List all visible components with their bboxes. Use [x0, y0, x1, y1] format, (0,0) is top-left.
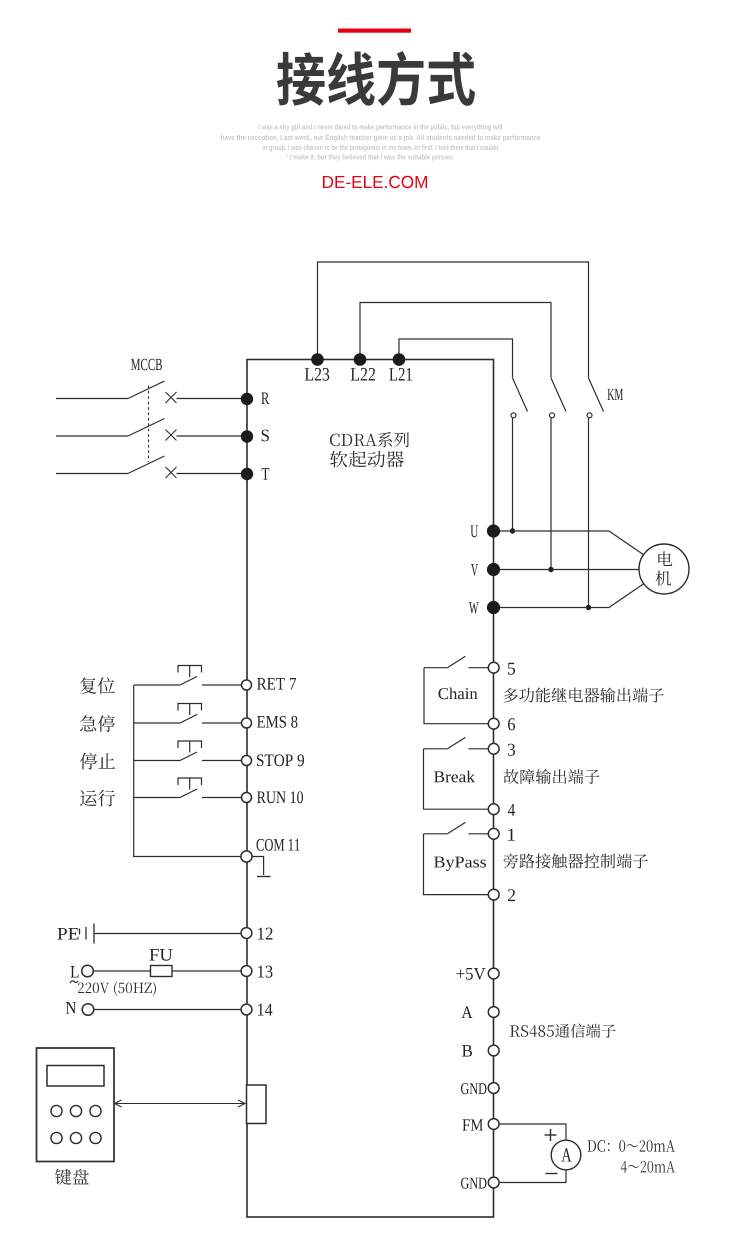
stop button 停止 contact blade — [180, 752, 197, 761]
Break relay contact left return wire — [424, 749, 489, 809]
terminal 1 circle — [488, 828, 499, 839]
label RET 7 — [257, 678, 296, 690]
fuse FU body — [151, 966, 173, 977]
terminal U dot — [487, 524, 500, 537]
N neutral circle — [82, 1004, 94, 1016]
reset button 复位 actuator — [178, 666, 202, 673]
keypad buttons row 2 — [51, 1132, 62, 1143]
plus sign — [545, 1134, 557, 1136]
motor label 电 — [658, 551, 672, 566]
junction dot on phase line — [586, 605, 591, 610]
CDRA series text line 2 — [330, 451, 404, 468]
ammeter label A — [562, 1148, 572, 1161]
CDRA series text line 1 — [330, 432, 409, 447]
label N — [66, 1002, 76, 1014]
control common rail — [134, 685, 241, 857]
keypad outer box — [37, 1048, 115, 1162]
stop button 停止 actuator — [178, 741, 202, 748]
wire U to motor — [500, 531, 644, 555]
wire V to motor — [500, 569, 639, 571]
stop button 停止 wire to terminal — [202, 760, 242, 762]
emergency stop button 急停 wire from rail — [134, 722, 180, 724]
terminal +5V circle — [488, 968, 499, 979]
KM contactor pole 2 lower wire — [550, 418, 552, 570]
label L — [70, 966, 78, 978]
ac tilde mark — [70, 981, 78, 983]
label 急停 — [80, 715, 115, 732]
terminal 2 circle — [488, 889, 499, 900]
terminal T dot — [241, 468, 253, 480]
connector block on left bus — [247, 1085, 267, 1124]
wire L22 to KM contact 2 — [360, 303, 551, 378]
reset button 复位 wire to terminal — [202, 684, 242, 686]
label 220V (50HZ) — [78, 981, 156, 995]
terminal A circle — [488, 1007, 499, 1018]
label +5V — [457, 968, 486, 980]
PE earth bars — [79, 929, 81, 935]
Break relay contact top wire — [424, 748, 448, 750]
label FM — [463, 1119, 484, 1130]
terminal V dot — [487, 563, 500, 576]
ammeter loop wire top — [499, 1124, 566, 1140]
KM contactor pole 2 blade — [551, 378, 566, 412]
label 旁路接触器控制端子 — [504, 853, 648, 868]
KM contactor pole 3 fixed contact circle — [587, 413, 592, 418]
label U — [471, 526, 479, 538]
MCCB pole 2 incoming wire — [56, 435, 128, 437]
label 多功能继电器输出端子 — [503, 687, 663, 702]
emergency stop button 急停 actuator — [178, 704, 202, 711]
wire MCCB pole 3 to terminal T — [177, 473, 242, 475]
wire L23 to KM contact 3 — [318, 262, 589, 378]
page title 接线方式 (wiring method) — [277, 51, 475, 106]
label R — [261, 393, 269, 405]
MCCB pole 2 cross mark — [166, 430, 177, 441]
label W — [469, 602, 479, 614]
terminal EMS circle — [242, 718, 252, 728]
COM earth symbol — [252, 857, 264, 876]
KM contactor pole 1 fixed contact circle — [511, 413, 516, 418]
label 5 — [508, 663, 515, 675]
soft starter outline box — [247, 360, 494, 1218]
reset button 复位 wire from rail — [134, 684, 180, 686]
keypad buttons row 1 — [51, 1105, 62, 1116]
label PE — [58, 928, 79, 940]
label RUN 10 — [257, 791, 303, 803]
label GND — [461, 1083, 486, 1094]
svg-text:in group. I was chosen to be t: in group. I was chosen to be the protago… — [263, 143, 499, 152]
MCCB mechanical link (dashed) — [148, 386, 150, 463]
MCCB pole 3 switch blade — [128, 456, 165, 474]
label RS485通信端子 — [510, 1024, 616, 1038]
Break relay contact blade — [447, 737, 465, 748]
run button 运行 contact blade — [180, 789, 197, 798]
motor label 机 — [656, 571, 671, 586]
Chain relay contact wire to terminal 5 — [468, 667, 488, 669]
label Chain — [439, 688, 478, 700]
ammeter circle — [551, 1140, 581, 1170]
label FU — [150, 949, 173, 961]
label 3 — [508, 744, 515, 756]
terminal 5 circle — [488, 662, 499, 673]
MCCB pole 2 switch blade — [128, 419, 165, 437]
label A — [462, 1006, 473, 1018]
label 1 — [508, 829, 515, 841]
minus sign — [546, 1173, 558, 1175]
label EMS 8 — [257, 716, 297, 728]
label DC: 0-20mA — [588, 1140, 676, 1152]
terminal RET circle — [242, 680, 252, 690]
KM contactor pole 1 blade — [513, 378, 528, 412]
label L23 — [305, 368, 329, 381]
MCCB pole 3 incoming wire — [56, 473, 128, 475]
terminal S dot — [241, 430, 253, 442]
KM contactor pole 3 blade — [589, 378, 604, 412]
terminal COM circle — [241, 851, 252, 862]
terminal R dot — [241, 393, 253, 405]
label 故障输出端子 — [504, 769, 600, 784]
terminal RUN circle — [242, 793, 252, 803]
run button 运行 wire to terminal — [202, 797, 242, 799]
terminal FM circle — [488, 1119, 499, 1130]
run button 运行 actuator — [178, 778, 202, 785]
reset button 复位 contact blade — [180, 677, 197, 686]
junction dot on phase line — [548, 567, 553, 572]
svg-text:have the exception. Last week,: have the exception. Last week, our Engli… — [221, 133, 541, 142]
label 停止 — [80, 753, 115, 770]
label 键盘 — [55, 1169, 89, 1185]
label S — [262, 430, 269, 442]
label V — [471, 564, 478, 576]
label 12 — [258, 928, 272, 940]
junction dot on phase line — [510, 528, 515, 533]
Chain relay contact top wire — [424, 667, 447, 669]
motor M circle — [639, 544, 689, 594]
terminal 4 circle — [488, 804, 499, 815]
label 6 — [508, 718, 515, 730]
label 13 — [258, 966, 272, 978]
stop button 停止 wire from rail — [134, 760, 180, 762]
label Break — [434, 771, 475, 783]
MCCB pole 1 switch blade — [128, 381, 165, 399]
label 复位 — [80, 677, 115, 694]
terminal 12 circle — [241, 928, 252, 939]
Break relay contact wire to terminal 3 — [468, 748, 488, 750]
L phase circle — [82, 965, 94, 977]
site name DE-ELE.COM — [323, 176, 427, 188]
ByPass relay contact top wire — [424, 833, 448, 835]
terminal 13 circle — [241, 966, 252, 977]
terminal 3 circle — [488, 743, 499, 754]
terminal 14 circle — [241, 1004, 252, 1015]
Chain relay contact left return wire — [424, 668, 488, 724]
terminal L23 dot — [311, 353, 324, 366]
svg-text:I was a shy girl and I never d: I was a shy girl and I never dared to ma… — [259, 122, 503, 131]
wire MCCB pole 1 to terminal R — [177, 398, 242, 400]
ByPass relay contact wire to terminal 1 — [468, 833, 488, 835]
terminal GND2 circle — [488, 1177, 499, 1188]
terminal L21 dot — [393, 353, 406, 366]
keypad link arrow (double headed) — [115, 1103, 246, 1105]
label L22 — [351, 368, 375, 381]
keypad display window — [47, 1066, 104, 1087]
emergency stop button 急停 wire to terminal — [202, 722, 242, 724]
label 4 — [508, 804, 515, 816]
label MCCB — [131, 359, 162, 371]
wire fuse to terminal 13 — [172, 970, 241, 972]
label 2 — [508, 889, 515, 901]
wire W to motor — [500, 584, 644, 608]
red accent bar above title — [338, 29, 411, 33]
KM contactor pole 2 fixed contact circle — [550, 413, 555, 418]
MCCB pole 3 cross mark — [166, 467, 177, 478]
Chain relay contact blade — [447, 656, 465, 667]
terminal STOP circle — [242, 756, 252, 766]
label 14 — [258, 1004, 272, 1016]
label 运行 — [80, 790, 115, 807]
label B — [462, 1045, 472, 1057]
wire MCCB pole 2 to terminal S — [177, 435, 242, 437]
KM contactor pole 1 lower wire — [512, 418, 514, 531]
label T — [262, 468, 270, 480]
terminal 6 circle — [488, 718, 499, 729]
terminal B circle — [488, 1045, 499, 1056]
run button 运行 wire from rail — [134, 797, 180, 799]
label COM 11 — [256, 839, 299, 851]
label STOP 9 — [257, 754, 304, 766]
terminal W dot — [487, 601, 500, 614]
wire L to fuse — [93, 970, 150, 972]
terminal L22 dot — [354, 353, 367, 366]
ByPass relay contact blade — [447, 822, 465, 833]
wire L21 to KM contact 1 — [399, 339, 513, 378]
wire N to terminal 14 — [94, 1009, 241, 1011]
label L21 — [389, 368, 412, 381]
faint english filler paragraph — [221, 122, 541, 161]
MCCB pole 1 incoming wire — [56, 398, 128, 400]
label KM — [608, 389, 623, 400]
label ByPass — [434, 857, 486, 871]
KM contactor pole 3 lower wire — [588, 418, 590, 608]
emergency stop button 急停 contact blade — [180, 715, 197, 724]
ammeter loop wire bottom — [499, 1170, 566, 1183]
label 4-20mA — [621, 1161, 675, 1173]
wire PE to terminal 12 — [94, 933, 241, 935]
MCCB pole 1 cross mark — [166, 392, 177, 403]
svg-text:' t make it, but they believed: ' t make it, but they believed that I wa… — [287, 152, 454, 161]
terminal GND circle — [488, 1083, 499, 1094]
label GND2 — [461, 1178, 486, 1189]
ByPass relay contact left return wire — [424, 834, 489, 895]
